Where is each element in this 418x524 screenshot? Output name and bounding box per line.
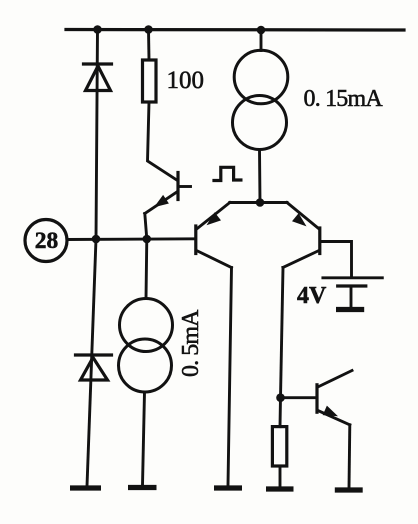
- wire node 28 row through diode D2 to ground: [87, 239, 96, 486]
- transistor Q3 collector: [283, 251, 319, 268]
- node junction dot at Q4 base: [276, 393, 285, 402]
- transistor Q4 emitter arrow: [323, 406, 338, 417]
- battery short plate: [338, 284, 366, 287]
- ground (battery): [336, 307, 364, 312]
- svg-text:0. 5mA: 0. 5mA: [178, 309, 204, 377]
- battery long plate: [323, 276, 382, 279]
- current source I1 upper circle: [234, 50, 288, 104]
- wire node 28 to Q2 base: [67, 237, 195, 241]
- wire common emitter horizontal: [230, 201, 287, 204]
- wire Q3 base to battery: [321, 242, 352, 278]
- wire R2 to ground: [279, 466, 282, 487]
- wire battery to ground: [350, 286, 353, 308]
- resistor R2 body: [272, 427, 286, 466]
- transistor Q1 base stub: [179, 185, 191, 188]
- svg-text:100: 100: [167, 67, 205, 94]
- current source I2 lower circle: [119, 339, 172, 392]
- node junction dot at node 28 row (diode branch): [92, 235, 101, 244]
- wire rail through diode D1 to node 28 row: [96, 30, 98, 240]
- wire Q3 collector to node B: [281, 268, 284, 398]
- node junction dot at node 28 row (current source branch): [143, 235, 152, 244]
- transistor Q2 collector: [197, 251, 232, 268]
- ground (current source I2): [128, 485, 157, 490]
- wire Q1 emitter to node 28 row: [145, 214, 147, 240]
- transistor Q4 base bar: [315, 385, 318, 412]
- ground (Q2 collector): [214, 485, 242, 490]
- transistor Q4 emitter: [318, 411, 350, 425]
- diode D1 cathode bar: [84, 62, 112, 65]
- transistor Q1 base bar: [176, 173, 179, 200]
- current source I2 upper circle: [120, 299, 173, 352]
- wire R1 to transistor Q1 collector: [148, 102, 177, 180]
- wire Q2 collector to ground: [228, 268, 232, 486]
- wire node B to Q4 base: [281, 396, 316, 399]
- wire top supply rail: [66, 28, 404, 32]
- wire Q4 emitter to ground: [348, 425, 352, 488]
- node junction dot on rail (resistor branch): [144, 25, 153, 34]
- wire I2 to ground: [143, 392, 145, 485]
- wire node B to resistor R2: [279, 398, 282, 427]
- diode D1 triangle: [86, 66, 111, 91]
- transistor Q2 base bar: [194, 226, 197, 254]
- svg-text:28: 28: [35, 228, 59, 254]
- transistor Q4 collector: [318, 371, 352, 388]
- wire I1 to diff pair common node: [258, 150, 261, 203]
- wire rail to current source I1: [260, 30, 263, 51]
- transistor Q1 emitter: [145, 192, 177, 214]
- node common emitter junction dot: [256, 198, 265, 207]
- ground (R2): [266, 486, 294, 491]
- wire rail to resistor R1: [147, 30, 150, 61]
- node terminal 28 circle: [25, 220, 67, 262]
- diode D2 cathode bar: [76, 353, 112, 356]
- node junction dot on rail (diode branch): [93, 25, 102, 34]
- diode D2 triangle: [81, 358, 108, 381]
- svg-text:0. 15mA: 0. 15mA: [304, 86, 384, 112]
- pulse input symbol: [214, 167, 241, 180]
- node junction dot on rail (current source branch): [257, 26, 266, 35]
- transistor Q2 emitter arrow: [207, 212, 222, 225]
- resistor R1 body: [143, 60, 157, 102]
- transistor Q1 emitter arrow: [154, 195, 169, 207]
- transistor Q2 emitter: [197, 203, 230, 229]
- wire node 28 row to current source I2: [145, 239, 149, 299]
- transistor Q3 base bar: [318, 228, 321, 254]
- svg-text:4V: 4V: [297, 283, 327, 309]
- ground (Q4 emitter): [335, 487, 363, 492]
- transistor Q3 emitter arrow: [292, 213, 307, 226]
- ground (diode branch): [70, 485, 101, 490]
- current source I1 lower circle: [233, 96, 287, 150]
- transistor Q3 emitter: [287, 203, 319, 229]
